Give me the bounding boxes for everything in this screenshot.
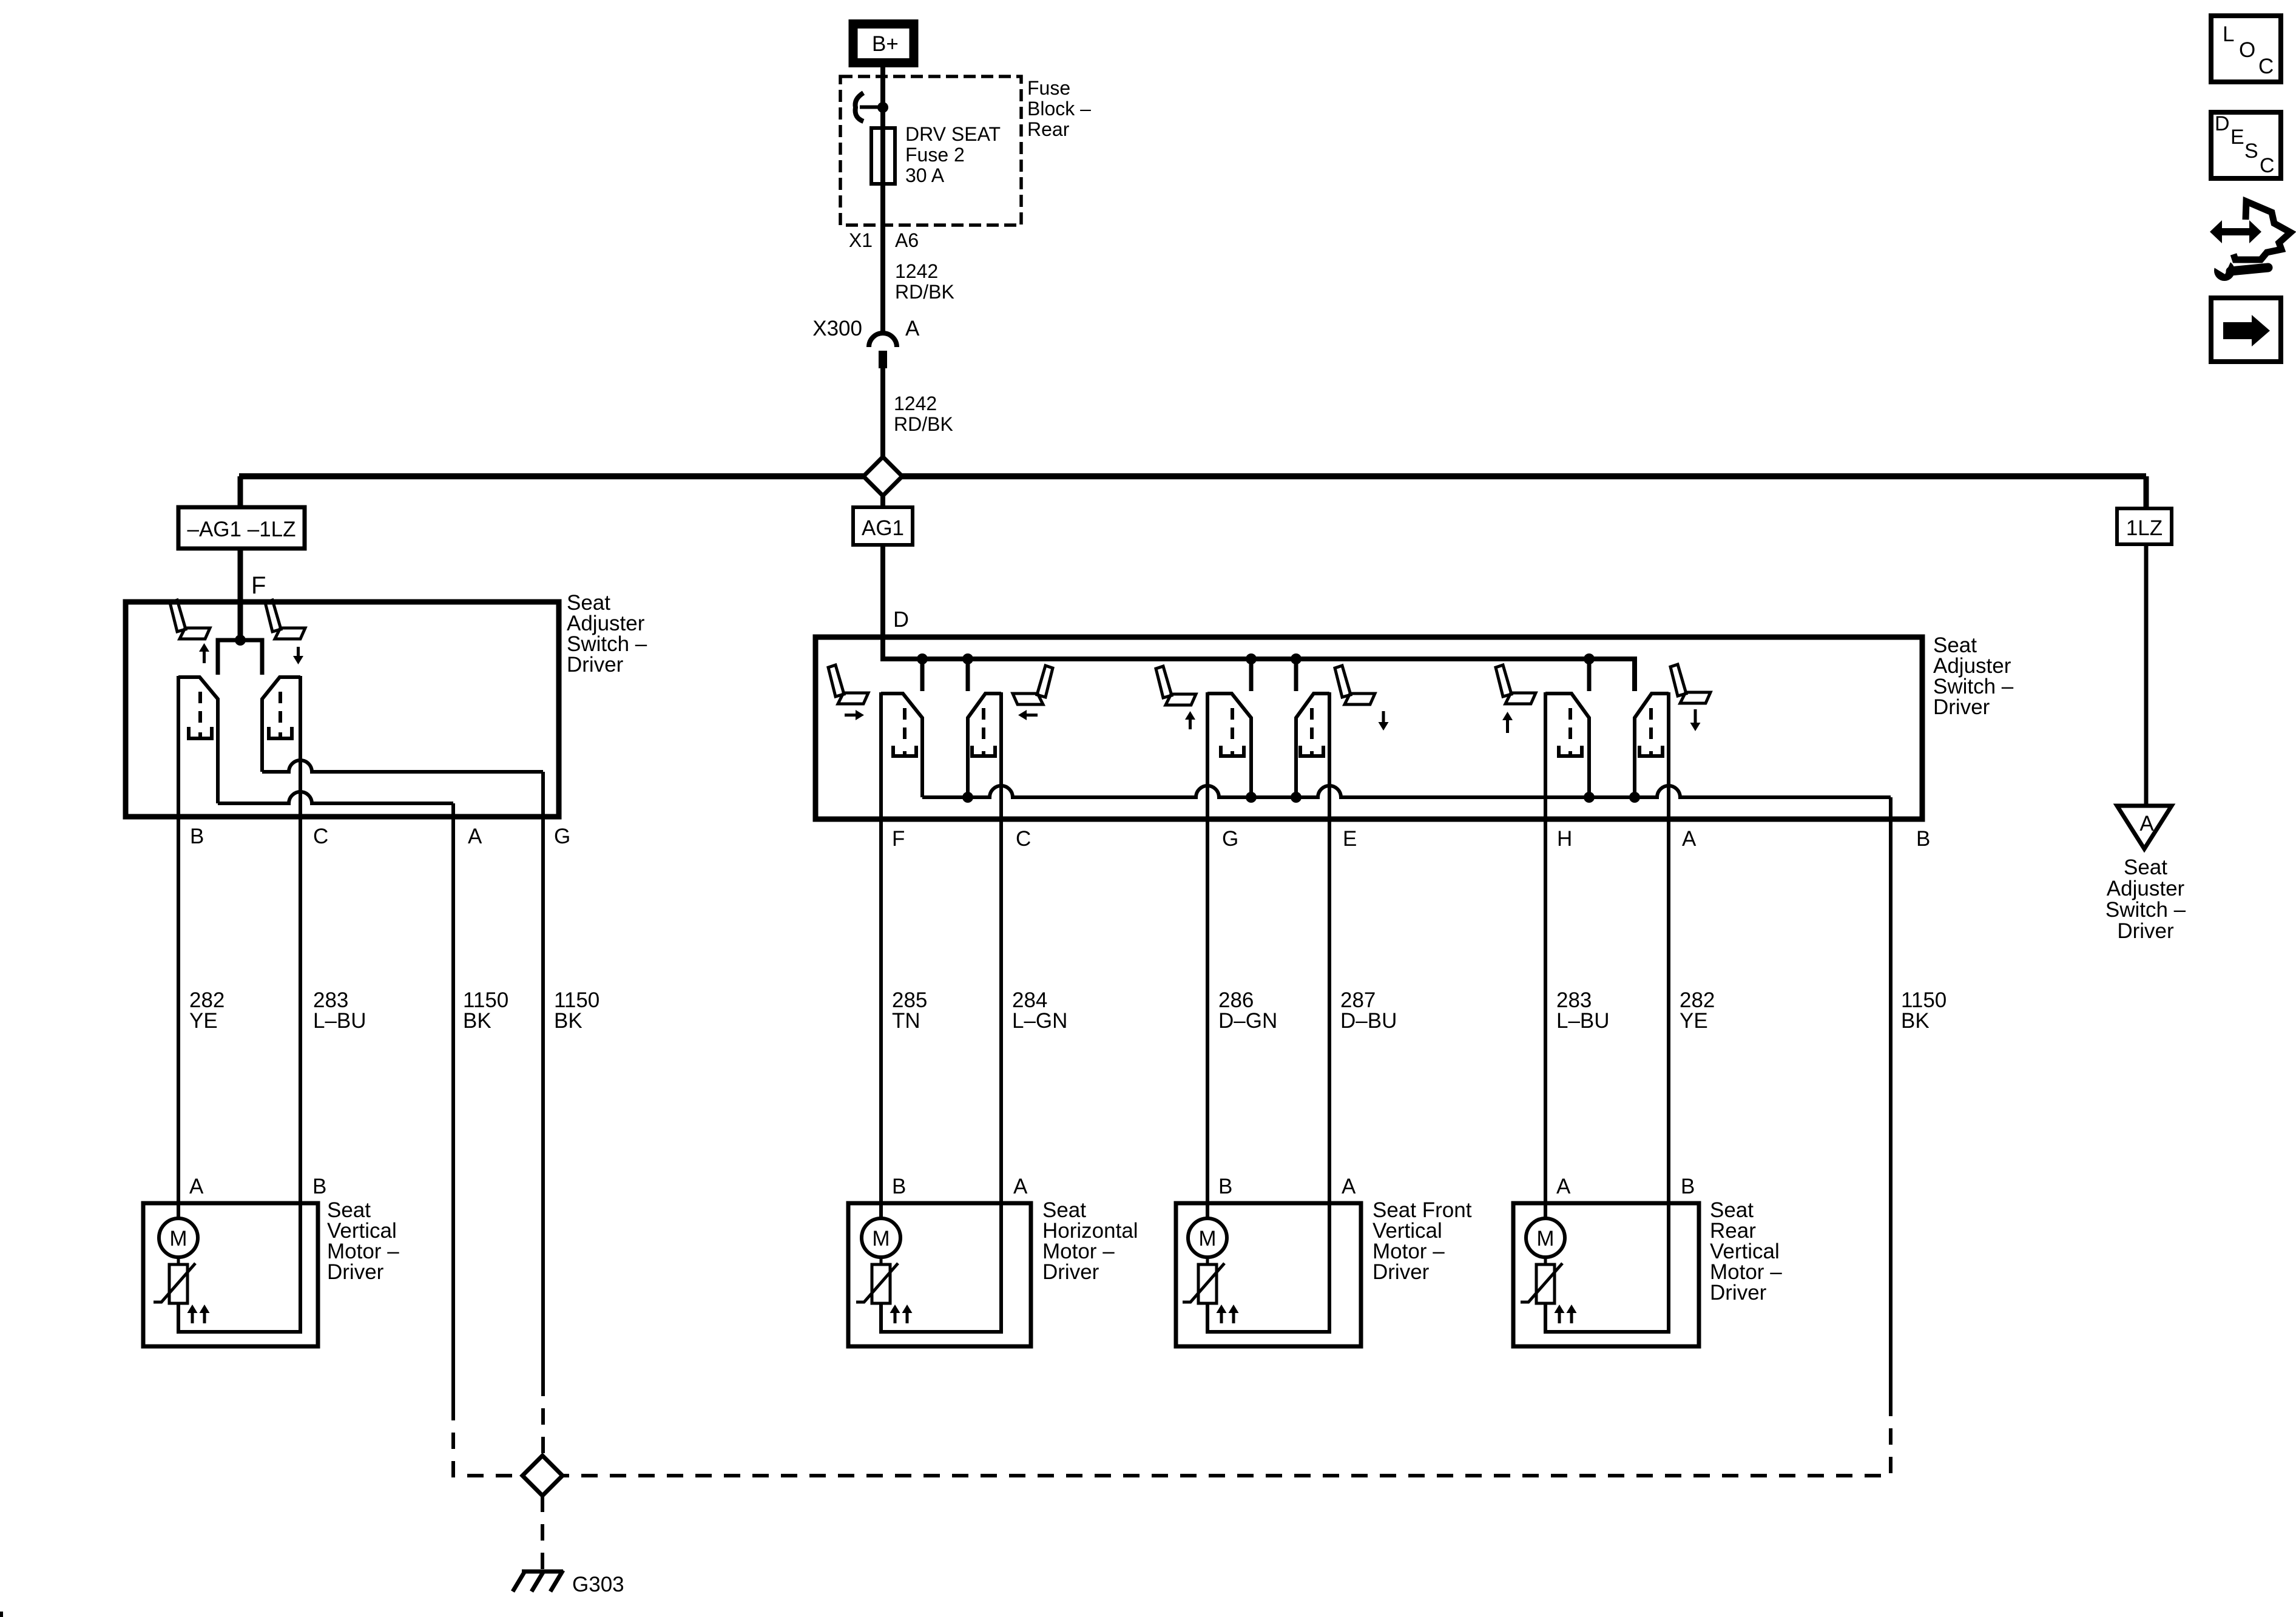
common feed bridge (left box) — [218, 640, 262, 675]
common stubs — [922, 659, 1589, 691]
junction dot return E — [1291, 792, 1302, 803]
svg-text:A: A — [905, 317, 920, 340]
arrow down (rear vertical) — [1690, 709, 1701, 731]
dashed ground bus 1150 BK — [453, 1403, 1891, 1476]
svg-text:G: G — [1222, 827, 1238, 851]
motor M4 arrow up 2 — [1567, 1305, 1577, 1323]
arrow up (left box) — [199, 643, 209, 663]
svg-text:B+: B+ — [872, 32, 899, 56]
svg-text:AG1: AG1 — [862, 516, 904, 540]
motor M2 internal wire — [881, 1197, 1001, 1332]
actuator dashes (C contact) — [269, 692, 292, 738]
junction dot return C — [962, 792, 973, 803]
arrow down (front vertical) — [1379, 711, 1389, 731]
connector -AG1 -1LZ — [178, 507, 305, 549]
svg-text:C: C — [2258, 55, 2274, 78]
actuator dashes (H contact) — [1559, 708, 1582, 756]
page corner mark — [0, 1612, 3, 1617]
internal feed bus from pin D — [883, 659, 1635, 691]
svg-text:B: B — [190, 825, 204, 848]
motor M3 internal wire — [1207, 1197, 1329, 1332]
switch contact to pin C (left box) — [262, 677, 300, 772]
svg-text:X1: X1 — [849, 229, 873, 251]
icon service procedure (arrow + wrench) — [2210, 201, 2291, 281]
node B+ — [853, 24, 914, 63]
connector AG1 — [853, 507, 913, 545]
wire 283 L-BU (pin C to motor) — [299, 676, 302, 1332]
seat icon forward switch — [828, 665, 868, 704]
arrow right (forward) — [845, 710, 864, 720]
switch box Seat Adjuster Switch - Driver (center) — [815, 637, 1922, 819]
motor M1 motor circle — [159, 1218, 198, 1257]
svg-text:B: B — [1681, 1175, 1695, 1198]
motor M1 arrow up 1 — [187, 1305, 198, 1323]
motor M1 box — [143, 1203, 318, 1346]
wire 282 YE (pin B to motor) — [177, 676, 180, 1220]
motor M4 PTC thermistor — [1521, 1257, 1562, 1303]
switch contact pin A (center) — [1635, 694, 1669, 797]
wire C-contact to pin G with crossover hop — [262, 760, 543, 772]
motor M3 arrow up 1 — [1217, 1305, 1227, 1323]
seat icon rear up switch — [1496, 665, 1536, 704]
svg-text:A: A — [1556, 1175, 1571, 1198]
switch contact pin H — [1545, 694, 1589, 797]
dashed wire pin G to ground diamond — [541, 1380, 545, 1456]
actuator dashes (B contact) — [189, 692, 212, 738]
svg-text:A6: A6 — [895, 229, 919, 251]
ground symbol G303 — [513, 1570, 563, 1592]
actuator dashes (F contact) — [893, 708, 916, 756]
seat icon up switch (left box) — [170, 600, 210, 639]
svg-text:F: F — [892, 827, 905, 851]
junction dot pin F feed — [235, 635, 246, 646]
motor M2 arrow up 1 — [890, 1305, 900, 1323]
motor M2 arrow up 2 — [902, 1305, 913, 1323]
wire 284 L-GN — [999, 692, 1003, 1332]
dashed wire diamond to G303 — [541, 1496, 544, 1569]
svg-text:G: G — [554, 825, 570, 848]
svg-text:–AG1 –1LZ: –AG1 –1LZ — [187, 518, 296, 541]
arrow left (rearward) — [1018, 710, 1038, 720]
bus B+ distribution wire — [239, 473, 2146, 479]
junction dot at fuse clip — [877, 102, 888, 113]
switch contact pin E — [1296, 694, 1329, 797]
wire 285 TN — [879, 692, 883, 1220]
svg-text:C: C — [1016, 827, 1031, 851]
svg-text:B: B — [1218, 1175, 1232, 1198]
junction dot return A — [1629, 792, 1640, 803]
junction dot stub F — [917, 653, 928, 664]
motor M3 PTC thermistor — [1183, 1257, 1224, 1303]
motor M4 internal wire — [1545, 1197, 1669, 1332]
svg-text:L: L — [2223, 22, 2234, 46]
wire 1150 BK (pin G, solid part) — [541, 772, 545, 1380]
motor M3 wire left pin — [1206, 1197, 1209, 1218]
fuse clip symbol — [856, 93, 883, 121]
off-page connector triangle pin A — [2117, 806, 2172, 849]
motor M3 motor circle — [1188, 1218, 1227, 1257]
actuator dashes (E contact) — [1300, 708, 1323, 756]
motor M1 wire left pin — [177, 1197, 180, 1218]
switch contact pin F — [881, 694, 922, 797]
svg-text:B: B — [892, 1175, 906, 1198]
wire B+ to fuse — [880, 67, 885, 336]
svg-text:B: B — [1916, 827, 1930, 851]
seat icon down switch (left box) — [265, 600, 305, 639]
connector X300 pin A — [869, 333, 897, 368]
junction dot stub C — [962, 653, 973, 664]
wire 282 YE (center) — [1667, 692, 1670, 1332]
svg-text:M: M — [1536, 1227, 1554, 1251]
junction dot return G — [1246, 792, 1257, 803]
svg-text:X300: X300 — [812, 317, 862, 340]
actuator dashes (G contact) — [1221, 708, 1244, 756]
switch contact pin C (center) — [968, 694, 1001, 797]
arrow down (left box) — [293, 647, 303, 664]
svg-text:E: E — [1343, 827, 1357, 851]
svg-text:A: A — [189, 1175, 204, 1198]
svg-text:S: S — [2244, 140, 2258, 163]
seat icon front down switch — [1335, 666, 1375, 704]
wire diamond to AG1 connector — [880, 496, 885, 507]
svg-text:M: M — [169, 1227, 187, 1251]
svg-text:A: A — [468, 825, 482, 848]
wire 283 L-BU (center) — [1544, 692, 1547, 1220]
motor M2 box — [848, 1203, 1031, 1346]
connector 1LZ — [2117, 508, 2172, 544]
svg-text:A: A — [1682, 827, 1697, 851]
seat icon rearward switch — [1013, 666, 1053, 704]
common return wire to pin B with crossover hops — [922, 786, 1891, 797]
svg-text:F: F — [251, 572, 266, 599]
wire -AG1-1LZ to switch box, pin F — [238, 549, 243, 640]
motor M2 wire left pin — [879, 1197, 883, 1218]
svg-text:A: A — [1342, 1175, 1356, 1198]
svg-text:C: C — [313, 825, 328, 848]
wire 287 D-BU — [1328, 692, 1331, 1332]
wire AG1 to switch box pin D — [880, 545, 885, 661]
svg-text:1LZ: 1LZ — [2126, 516, 2163, 540]
wire 1150 BK (pin B, solid part) — [1889, 797, 1893, 1403]
motor M4 motor circle — [1526, 1218, 1565, 1257]
svg-text:C: C — [2260, 154, 2275, 177]
arrow up (front vertical) — [1185, 711, 1195, 729]
icon DESC box — [2211, 112, 2281, 178]
icon LOC box — [2211, 16, 2281, 82]
svg-text:A: A — [1013, 1175, 1028, 1198]
wire B-contact to pin A with crossover hop — [218, 792, 453, 803]
junction dot return H — [1584, 792, 1595, 803]
motor M1 arrow up 2 — [200, 1305, 210, 1323]
motor M1 internal wire — [178, 1197, 300, 1332]
motor M3 box — [1176, 1203, 1361, 1346]
junction dot stub G — [1246, 653, 1257, 664]
svg-text:H: H — [1557, 827, 1572, 851]
wire 286 D-GN — [1206, 692, 1209, 1220]
seat icon front up switch — [1156, 666, 1196, 705]
junction dot stub H — [1584, 653, 1595, 664]
fuse block dashed outline — [840, 76, 1021, 225]
motor M4 box — [1513, 1203, 1699, 1346]
wire X300 to bus — [880, 368, 885, 461]
motor M1 PTC thermistor — [154, 1257, 195, 1303]
actuator dashes (A contact center) — [1639, 708, 1663, 756]
svg-text:B: B — [312, 1175, 326, 1198]
motor M3 arrow up 2 — [1229, 1305, 1239, 1323]
motor M2 PTC thermistor — [856, 1257, 898, 1303]
svg-text:D: D — [2215, 112, 2230, 135]
switch box Seat Adjuster Switch - Driver (left) — [126, 602, 559, 817]
motor M2 motor circle — [862, 1218, 900, 1257]
seat icon rear down switch — [1670, 664, 1710, 703]
fuse F2 DRV SEAT 30A — [871, 128, 895, 184]
wire 1LZ to off-page connector — [2144, 544, 2149, 806]
icon arrow box — [2211, 298, 2281, 362]
ground junction diamond — [522, 1456, 562, 1496]
svg-text:G303: G303 — [572, 1573, 624, 1596]
actuator dashes (C contact center) — [972, 708, 995, 756]
arrow up (rear vertical) — [1502, 712, 1513, 733]
svg-text:E: E — [2230, 126, 2244, 149]
junction dot stub E — [1291, 653, 1302, 664]
motor M4 arrow up 1 — [1555, 1305, 1565, 1323]
svg-text:D: D — [893, 607, 909, 632]
wire 1150 BK (pin A, solid part) — [451, 803, 455, 1404]
switch contact to pin B (left box) — [178, 677, 218, 803]
svg-text:A: A — [2139, 812, 2154, 836]
svg-text:M: M — [872, 1227, 890, 1251]
motor M4 wire left pin — [1544, 1197, 1547, 1218]
svg-text:O: O — [2239, 38, 2255, 62]
svg-text:M: M — [1198, 1227, 1216, 1251]
switch contact pin G (center) — [1207, 694, 1251, 797]
junction diamond on bus — [863, 457, 902, 496]
wire bus to 1LZ connector — [2144, 476, 2149, 508]
wire bus to -AG1-1LZ connector — [238, 476, 243, 507]
